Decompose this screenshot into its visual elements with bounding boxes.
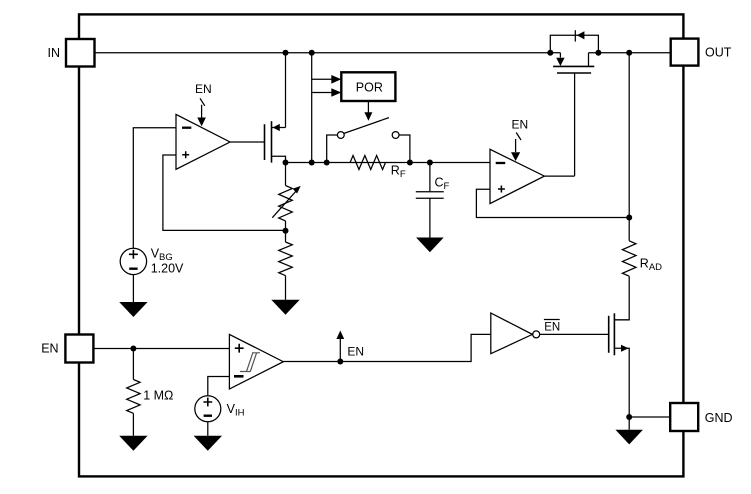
wire U1 plus input feedback tap — [163, 155, 286, 230]
node PMOS drain junction — [595, 50, 601, 56]
wire POR output arrow — [367, 101, 369, 113]
wire POR feed vertical — [311, 53, 313, 163]
wire U2 output to pass gate — [544, 175, 574, 177]
body diode of pass FET — [550, 35, 598, 53]
pin OUT — [671, 39, 699, 66]
svg-text:EN: EN — [195, 82, 212, 96]
ground (under CF) — [416, 238, 444, 253]
svg-text:EN: EN — [544, 322, 560, 334]
wire IN rail segment 2 — [589, 52, 671, 54]
ground (under 1 MΩ) — [119, 436, 147, 451]
wire U1 minus input to VBG — [133, 128, 176, 249]
node feedback tap — [285, 221, 287, 242]
wire feedback rail (RF rail) — [286, 162, 492, 164]
svg-text:GND: GND — [705, 411, 733, 425]
svg-text:EN: EN — [41, 341, 58, 355]
svg-text:EN: EN — [347, 345, 364, 359]
node CF tap — [427, 160, 433, 166]
wire U2 plus input from OUT divider — [476, 189, 629, 217]
node sense junction — [626, 215, 632, 221]
capacitor CF — [429, 163, 431, 192]
wire pass gate — [574, 73, 576, 176]
node OUT/RAD junction — [626, 50, 632, 56]
inverter U4 — [491, 313, 533, 354]
node IN/POR junction — [309, 50, 315, 56]
node switch right — [407, 160, 413, 166]
pass transistor (PMOS) — [559, 53, 561, 58]
wire RAD to pulldown drain — [614, 276, 629, 320]
wire OUT sense vertical — [628, 53, 630, 241]
svg-text:1.20V: 1.20V — [151, 261, 184, 275]
ground (internal GND) — [616, 430, 643, 445]
voltage source VIH — [195, 396, 221, 422]
wire drain riser of M1 — [285, 53, 287, 128]
op-amp U1 error amplifier — [176, 114, 230, 169]
svg-text:1 MΩ: 1 MΩ — [143, 389, 173, 403]
svg-text:POR: POR — [356, 80, 383, 94]
wire comparator output — [283, 334, 491, 361]
POR block — [341, 72, 395, 101]
node switch left — [324, 160, 330, 166]
ground (under feedback divider) — [271, 300, 299, 315]
wire VIH to ground — [207, 422, 209, 436]
resistor RF — [350, 156, 385, 170]
ground (under VIH) — [194, 436, 222, 451]
comparator U3 (EN with hysteresis) — [229, 334, 283, 389]
svg-text:OUT: OUT — [705, 45, 732, 59]
adjustable resistor R1 (feedback top) — [285, 163, 287, 186]
svg-text:IN: IN — [48, 46, 61, 60]
node GND junction — [626, 414, 632, 420]
wire comparator minus to VIH — [208, 377, 230, 396]
wire inverter output to pulldown gate — [540, 333, 609, 335]
transistor M2 (pulldown NMOS) — [608, 316, 610, 353]
hysteresis symbol — [240, 353, 260, 372]
wire VBG to ground — [132, 275, 134, 302]
svg-text:EN: EN — [512, 117, 529, 131]
pin GND — [670, 403, 698, 431]
resistor 1 MΩ — [132, 349, 134, 380]
transistor M1 (NMOS follower) — [230, 141, 265, 143]
voltage source VBG 1.20V — [120, 248, 146, 274]
pin EN — [65, 335, 93, 363]
switch (POR controlled) — [344, 118, 389, 134]
node IN/drain junction — [283, 50, 289, 56]
node source of M1 — [283, 160, 289, 166]
wire POR input upper — [312, 78, 332, 80]
wire GND node to pin — [629, 416, 670, 418]
node EN logic — [337, 359, 343, 365]
pin IN — [66, 39, 95, 67]
ground (under VBG) — [119, 302, 147, 317]
node EN/1M junction — [130, 346, 136, 352]
resistor R2 (feedback bottom) — [279, 242, 293, 276]
wire POR input lower — [312, 92, 332, 94]
resistor RAD — [622, 241, 636, 276]
wire IN rail segment 1 — [95, 52, 561, 54]
node POR feed / rail — [309, 160, 315, 166]
wire EN rail — [93, 348, 229, 350]
wire GND node to ground — [628, 417, 630, 430]
op-amp U2 gate driver — [490, 149, 544, 203]
IC boundary — [79, 14, 683, 476]
node PMOS source junction — [547, 50, 553, 56]
